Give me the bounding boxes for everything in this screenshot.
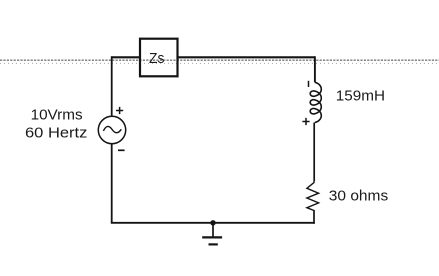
inductor L1 coil xyxy=(310,82,321,122)
resistor R1 zigzag xyxy=(307,181,319,211)
svg-text:159mH: 159mH xyxy=(336,89,385,105)
page border dotted line (lower) xyxy=(0,62,439,64)
wire: right vertical top stub into inductor xyxy=(314,56,316,82)
wire: top horizontal from source branch to right corner xyxy=(112,56,316,58)
source minus sign xyxy=(118,149,125,151)
svg-text:10Vrms: 10Vrms xyxy=(31,108,83,124)
impedance box Zs border xyxy=(140,39,178,77)
svg-text:Zs: Zs xyxy=(149,51,164,67)
wire: right vertical between inductor and resistor xyxy=(313,123,315,182)
ground bar 2 xyxy=(209,243,218,245)
page border dashed line (upper) xyxy=(0,59,439,61)
ground stem xyxy=(212,223,214,237)
wire: right vertical below resistor xyxy=(313,210,315,224)
inductor plus sign xyxy=(302,118,309,125)
AC source V1 circle xyxy=(98,116,125,143)
svg-text:60 Hertz: 60 Hertz xyxy=(25,126,87,142)
wire: bottom horizontal xyxy=(111,222,315,224)
svg-text:30 ohms: 30 ohms xyxy=(329,188,388,204)
ground junction dot xyxy=(210,220,215,225)
ground bar 1 xyxy=(202,236,222,238)
wire: left vertical (source branch) xyxy=(111,56,113,223)
inductor minus sign (rotated, vertical tick) xyxy=(308,81,310,87)
source plus sign xyxy=(116,107,123,114)
impedance box Zs white fill xyxy=(139,38,179,78)
AC source sine wave xyxy=(103,126,121,132)
